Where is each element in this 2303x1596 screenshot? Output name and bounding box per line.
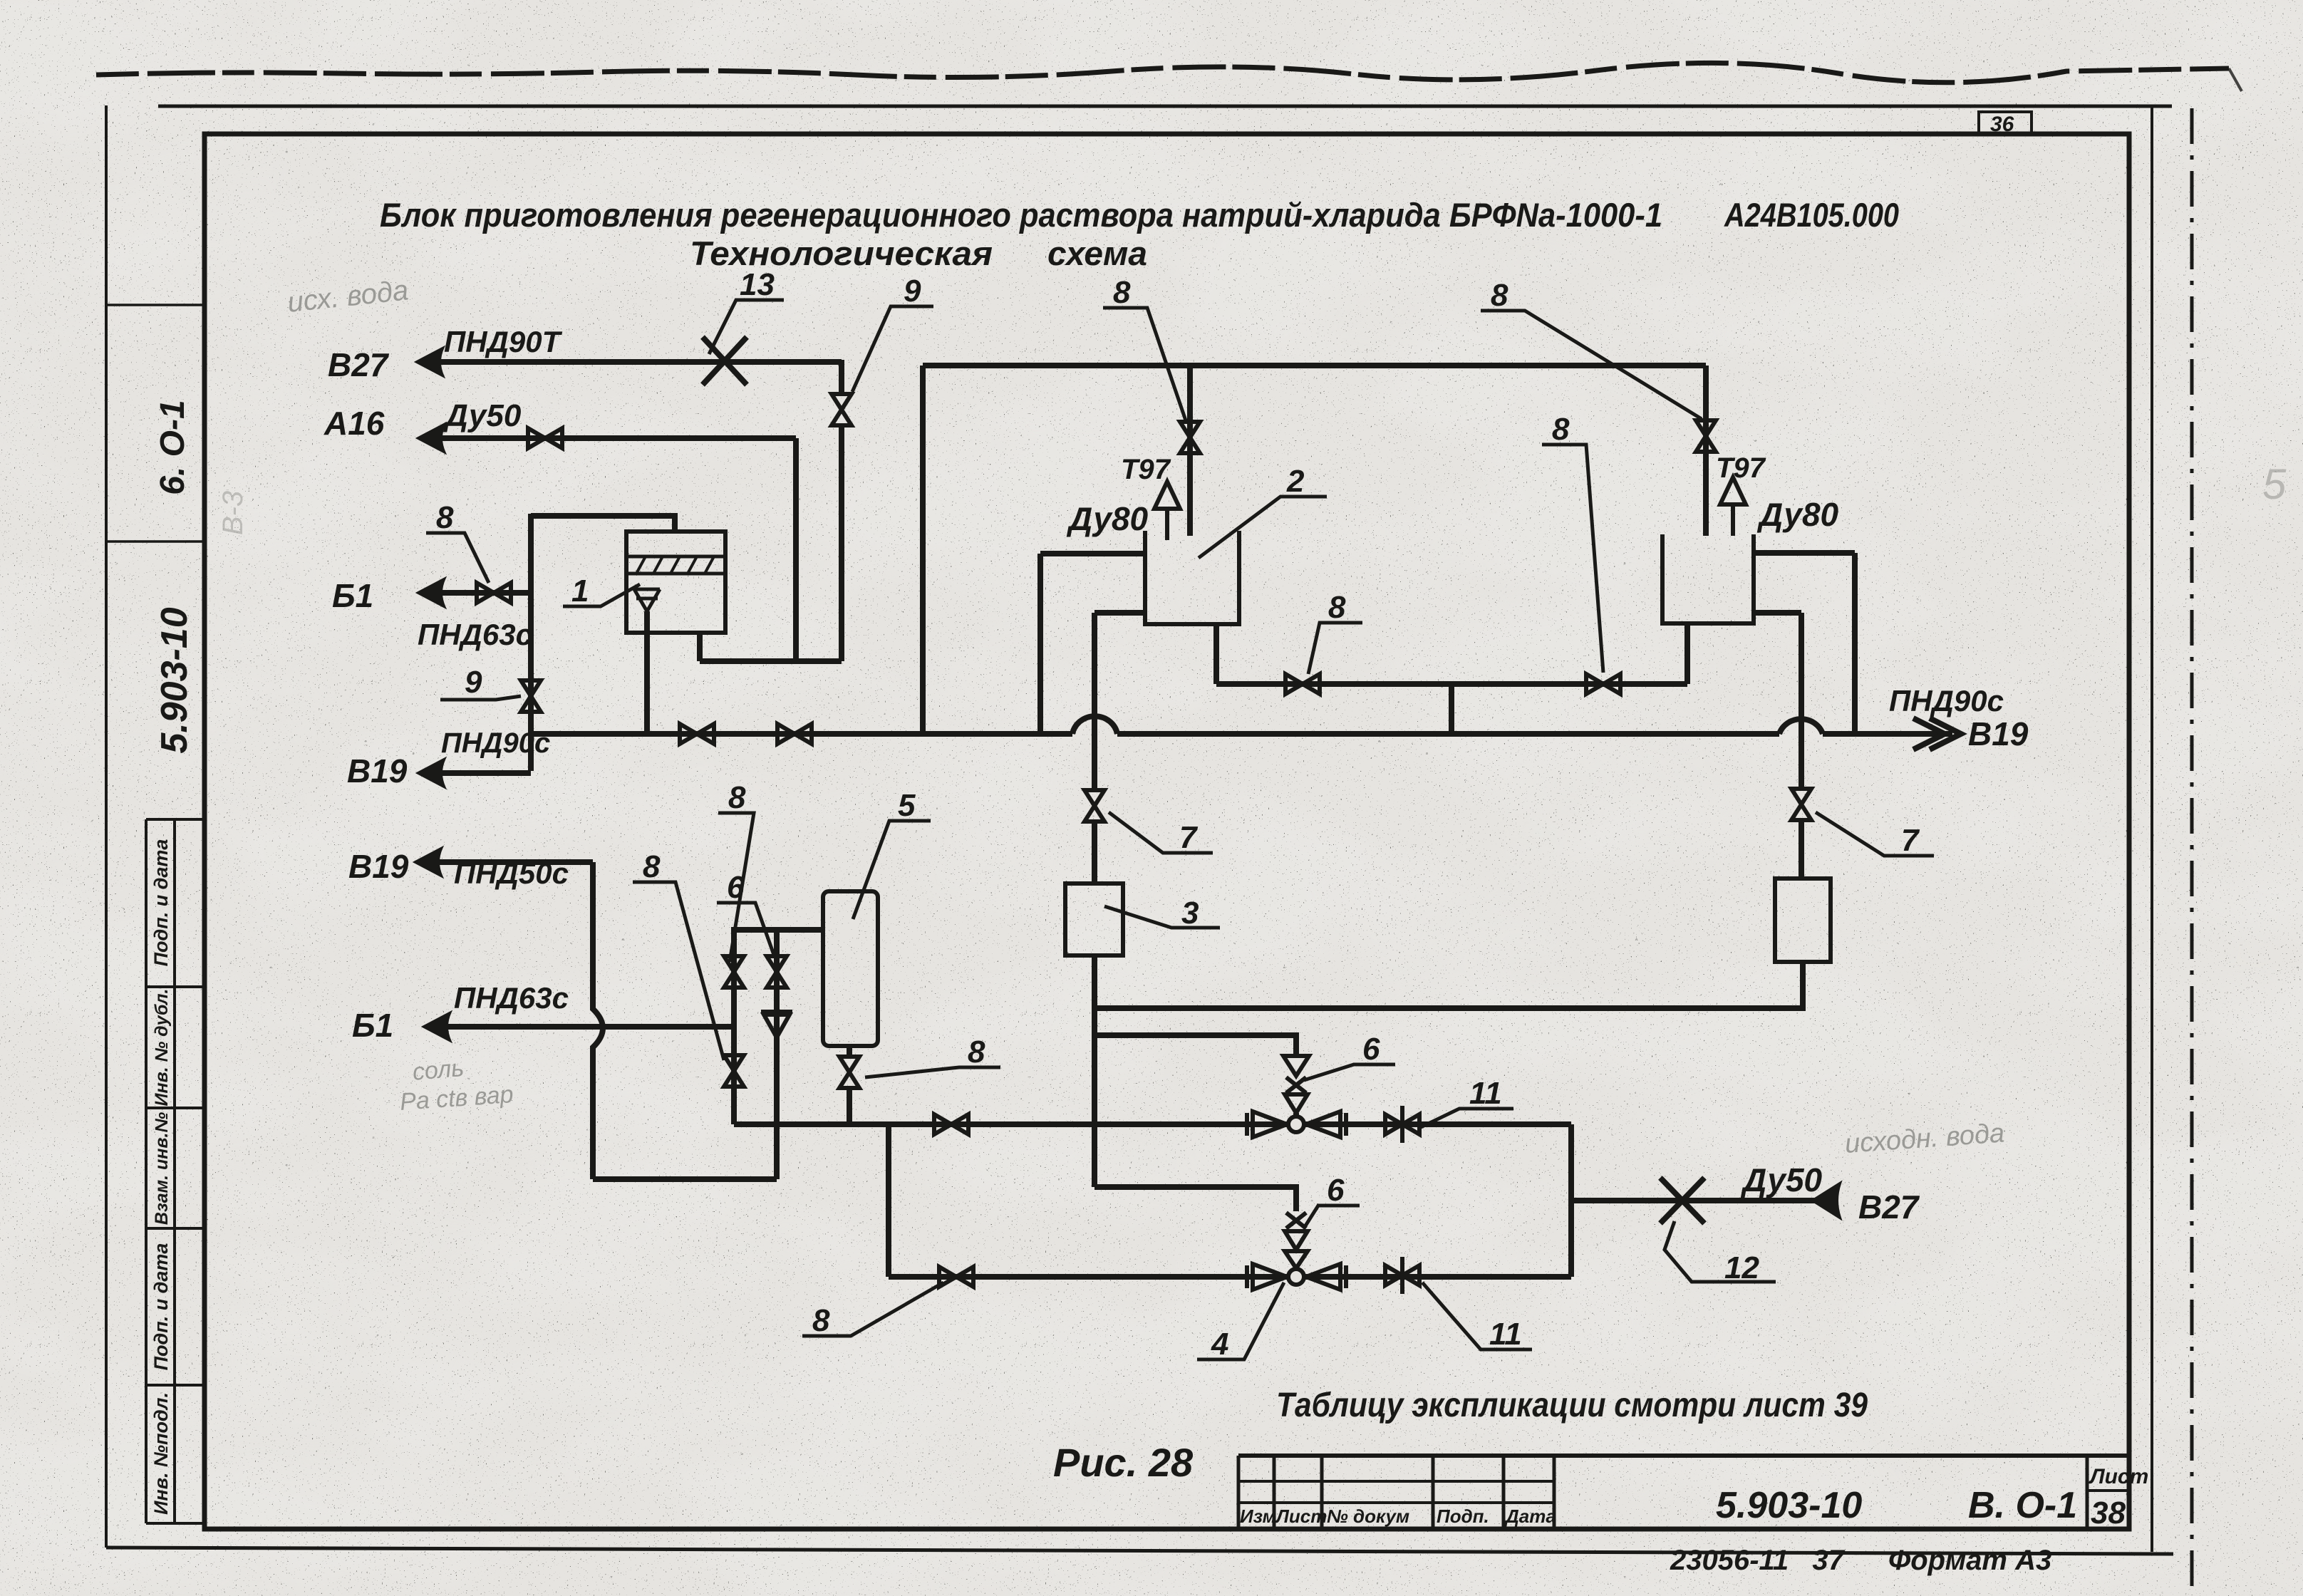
svg-text:8: 8 xyxy=(968,1035,985,1069)
svg-text:11: 11 xyxy=(1489,1317,1522,1352)
valve 8 (box5 outlet) xyxy=(839,1057,859,1088)
valve 8 on line M (x1335) xyxy=(934,1114,968,1134)
svg-text:ПНД63с: ПНД63с xyxy=(418,618,532,651)
svg-text:Ду80: Ду80 xyxy=(1756,496,1839,533)
pipe tank2 bottom drain stub xyxy=(1213,624,1219,684)
wire funnel drain xyxy=(644,611,650,734)
pipe shared drain line y960 xyxy=(1216,681,1687,687)
pipe outlet to B27 y1685 xyxy=(1571,1198,1816,1203)
box 3 (ejector left) xyxy=(1065,883,1123,955)
svg-text:3: 3 xyxy=(1181,896,1199,931)
svg-text:8: 8 xyxy=(812,1303,830,1338)
svg-text:Подп. и дата: Подп. и дата xyxy=(150,839,172,967)
wire right tank drain stub xyxy=(1684,624,1690,684)
valve 7 (left) xyxy=(1085,790,1104,822)
wire valve7 to box3 xyxy=(1092,821,1097,883)
svg-text:6: 6 xyxy=(727,870,745,905)
margin table verticals xyxy=(146,819,175,1523)
svg-text:Технологическая: Технологическая xyxy=(690,234,993,272)
svg-text:соль: соль xyxy=(411,1054,465,1086)
callout 1 xyxy=(563,584,640,606)
callout 5 xyxy=(853,821,931,919)
flow arrow B27 xyxy=(416,348,443,376)
wire B27 drop corner xyxy=(839,360,844,393)
sheet number box 36 xyxy=(1979,112,2032,134)
svg-text:9: 9 xyxy=(465,665,482,700)
svg-text:Таблицу экспликации смотри: Таблицу экспликации смотри лист 39 xyxy=(1276,1387,1868,1424)
SCHEMA2 tanks / right xyxy=(923,275,1934,1187)
right tank (dissolving tank 2) open-top xyxy=(1662,534,1754,623)
three-way cock upper (node on line M) xyxy=(1247,1111,1346,1137)
flow arrow B19 ПНД50с xyxy=(415,848,442,876)
pipe U-bottom y1655 xyxy=(593,1176,777,1182)
svg-text:ПНД90Т: ПНД90Т xyxy=(444,325,563,358)
wire drop x1247 M to E xyxy=(886,1124,891,1277)
svg-text:6. О-1: 6. О-1 xyxy=(154,400,192,494)
svg-text:Подп. и дата: Подп. и дата xyxy=(150,1243,172,1371)
valve on L1 (x978) xyxy=(680,724,714,744)
valve 11 lower xyxy=(1385,1265,1419,1285)
callout 8 (x1030 upper valve) xyxy=(718,813,754,962)
wire tank1 bottom stub xyxy=(697,633,703,661)
svg-text:36: 36 xyxy=(1990,113,2014,136)
tank 1 funnel nozzle xyxy=(634,589,660,611)
valve 8 (tank2 drain) xyxy=(1285,674,1320,694)
svg-text:7: 7 xyxy=(1179,820,1199,855)
inner drawing frame xyxy=(205,134,2129,1529)
svg-text:Т97: Т97 xyxy=(1121,454,1171,485)
svg-text:Инв. № дубл.: Инв. № дубл. xyxy=(152,989,172,1107)
LEFTMARGIN xyxy=(106,305,249,1523)
title block left stack verticals xyxy=(1238,1456,1554,1529)
svg-text:Ду50: Ду50 xyxy=(1740,1161,1823,1198)
valve on A16 line xyxy=(528,428,562,448)
wire valve7R to right box xyxy=(1799,819,1804,879)
callout 7 left xyxy=(1109,812,1213,853)
svg-text:Подп.: Подп. xyxy=(1437,1506,1489,1527)
page edge dash-dot vertical right xyxy=(2190,108,2194,1587)
svg-text:8: 8 xyxy=(643,849,661,884)
callout 6 lower xyxy=(1305,1206,1360,1227)
svg-text:5.903-10: 5.903-10 xyxy=(1716,1485,1862,1526)
svg-text:Рис. 28: Рис. 28 xyxy=(1053,1440,1194,1485)
svg-text:8: 8 xyxy=(1328,590,1346,625)
wire drop x2528 through L1 xyxy=(1799,613,1804,789)
svg-text:8: 8 xyxy=(1552,412,1570,447)
pipe jump over riser x2528 xyxy=(1779,719,1823,734)
box 5 (filter) xyxy=(823,891,878,1046)
wire A16 drop xyxy=(793,438,799,661)
margin cell divider top2 xyxy=(106,540,205,543)
pipe tank2 drain to filter y860 xyxy=(1094,610,1143,616)
svg-text:11: 11 xyxy=(1469,1076,1502,1111)
callout 13 xyxy=(709,300,784,354)
tank 1 screen hatching xyxy=(636,556,714,574)
pipe main line L1 y1030 xyxy=(531,731,1952,737)
valve 8 (x1030 upper) xyxy=(724,956,744,988)
callout 9 upper xyxy=(852,306,933,392)
svg-text:Ду50: Ду50 xyxy=(443,398,522,433)
pipe collector y928 under tank 1 xyxy=(700,658,842,664)
svg-text:А16: А16 xyxy=(324,405,385,442)
title block top edge xyxy=(1238,1453,2129,1458)
wire branch x1030 xyxy=(731,930,737,1124)
box 3 (ejector right) xyxy=(1775,879,1831,962)
pipe line E y1792 xyxy=(889,1274,1571,1280)
vent arrow T97 (tank2) xyxy=(1154,482,1180,540)
valve 13 (X crossing) xyxy=(703,337,747,385)
callout 8 (Б1 valve) xyxy=(426,533,489,583)
pipe line B y1453 xyxy=(1094,1035,1296,1055)
title block left stack rows xyxy=(1238,1481,1554,1503)
wire drop x832 (jump over Б1 line) xyxy=(593,862,603,1179)
tank 1 (salt dissolver) body xyxy=(626,532,725,633)
svg-text:9: 9 xyxy=(904,274,921,309)
callout 12 xyxy=(1665,1221,1776,1282)
svg-text:В27: В27 xyxy=(328,346,390,383)
callout 11 lower xyxy=(1422,1282,1532,1349)
svg-text:№ докум: № докум xyxy=(1327,1506,1409,1527)
flow arrow B19 right (double chevron) xyxy=(1913,718,1961,750)
svg-text:6: 6 xyxy=(1327,1173,1345,1208)
svg-text:ПНД63с: ПНД63с xyxy=(454,981,569,1015)
callout 11 upper xyxy=(1421,1109,1513,1127)
valve 11 upper xyxy=(1385,1114,1419,1134)
outer border left xyxy=(105,105,108,1548)
flow arrow Б1 xyxy=(418,579,445,607)
tank 2 (dissolving tank) open-top xyxy=(1145,531,1239,624)
svg-text:13: 13 xyxy=(740,267,775,302)
valve 6 lower assembly (x1819) xyxy=(1285,1213,1308,1268)
valve 8 on Б1 line xyxy=(477,583,511,603)
pipe top distribution line y513 xyxy=(923,363,1706,368)
pipe line D y1666 xyxy=(1094,1187,1296,1211)
callout 2 xyxy=(1199,497,1327,558)
valve 9 (lower, on riser x745) xyxy=(521,680,541,712)
callout 9 lower xyxy=(440,696,521,700)
wire right box down to line A xyxy=(1800,962,1806,1007)
flow arrow Б1 out xyxy=(423,1012,450,1041)
valve 9 (upper, on B27 drop) xyxy=(832,394,852,425)
torn page top edge (wavy dashed line) xyxy=(96,63,2229,82)
svg-text:В19: В19 xyxy=(347,752,408,789)
TITLETEXT xyxy=(286,196,2287,1159)
valve 8 (right tank fill) xyxy=(1696,420,1716,452)
wire branch x1090 xyxy=(774,930,780,1124)
callout 6 upper xyxy=(1304,1064,1395,1080)
valve 6 upper assembly (x1819) xyxy=(1283,1056,1309,1113)
svg-text:5: 5 xyxy=(2262,460,2287,508)
margin table horizontals xyxy=(146,819,205,1523)
pipe ПНД50с y1210 xyxy=(438,859,593,865)
pipe line M y1578 xyxy=(734,1121,1571,1127)
valve 8 (x1030 lower) xyxy=(724,1055,744,1087)
valve 6 (x1090) xyxy=(767,956,787,988)
svg-text:В. О-1: В. О-1 xyxy=(1968,1485,2077,1526)
svg-text:12: 12 xyxy=(1724,1250,1759,1285)
svg-text:ПНД90с: ПНД90с xyxy=(1889,684,2004,717)
svg-text:Блок приготовления регенерацио: Блок приготовления регенерационного раст… xyxy=(380,196,1662,234)
valve 12 (X crossing) xyxy=(1660,1178,1704,1223)
svg-text:Формат А3: Формат А3 xyxy=(1888,1545,2051,1576)
wire drain tee x2037 to L1 xyxy=(1449,684,1454,734)
pipe right tank outlet loop y776 xyxy=(1754,550,1855,556)
callout 8 (box5 outlet valve) xyxy=(865,1067,1000,1077)
callout 8 (tank2 drain valve) xyxy=(1308,623,1362,674)
svg-text:Лист: Лист xyxy=(2089,1465,2148,1488)
valve 7 (right) xyxy=(1791,789,1811,820)
svg-text:8: 8 xyxy=(728,780,746,815)
svg-text:А24В105.000: А24В105.000 xyxy=(1724,196,1899,234)
flow arrow A16 xyxy=(418,424,445,452)
svg-text:Б1: Б1 xyxy=(352,1007,393,1044)
pipe jump over riser x1536 xyxy=(1072,716,1117,734)
svg-text:В27: В27 xyxy=(1858,1188,1920,1225)
wire B27 drop to collector xyxy=(839,426,844,661)
outer border bottom xyxy=(106,1548,2173,1554)
svg-text:Инв. №подл.: Инв. №подл. xyxy=(150,1392,172,1515)
callout 3 xyxy=(1104,906,1220,928)
valve 8 on line E (x1342) xyxy=(939,1267,973,1287)
svg-text:Б1: Б1 xyxy=(332,577,373,614)
svg-text:8: 8 xyxy=(1491,278,1508,313)
valve 8 (tank2 fill) xyxy=(1180,422,1200,453)
pipe header y1305 xyxy=(731,927,824,933)
pipe Б1 y832 xyxy=(440,590,531,596)
valve on L1 (x1115) xyxy=(777,724,812,744)
pipe B19 outlet stub y1085 xyxy=(440,770,531,776)
svg-text:Т97: Т97 xyxy=(1716,452,1766,484)
callout 8 (tank2 fill valve) xyxy=(1103,308,1186,423)
outer border top xyxy=(158,105,2172,108)
tank 1 screen lines xyxy=(626,556,725,574)
svg-text:Лист: Лист xyxy=(1275,1506,1327,1527)
vent arrow T97 (right tank) xyxy=(1720,477,1746,536)
callout 7 right xyxy=(1816,812,1934,856)
wire riser x2603 to L1 xyxy=(1852,553,1858,734)
svg-text:5: 5 xyxy=(898,788,916,823)
svg-text:1: 1 xyxy=(571,574,589,608)
callout 6 (x1090 valve) xyxy=(717,903,774,955)
wire drop to right tank fill xyxy=(1703,366,1709,536)
svg-text:8: 8 xyxy=(1113,275,1131,310)
flow arrow B19 out xyxy=(418,759,445,787)
pipe right tank drain y860 xyxy=(1754,610,1801,616)
callout 8 (right tank fill valve) xyxy=(1481,311,1702,419)
svg-text:38: 38 xyxy=(2091,1496,2126,1530)
check valve on x1090 xyxy=(761,1012,792,1037)
svg-text:схема: схема xyxy=(1047,234,1147,272)
wire box5 outlet to line M xyxy=(847,1087,852,1124)
callout 8 (right tank drain valve) xyxy=(1542,445,1603,673)
pipe tank2 inlet loop y777 xyxy=(1040,551,1143,556)
wire drop to tank 2 fill xyxy=(1187,366,1193,536)
wire box3 down x1536 xyxy=(1092,955,1097,1187)
svg-text:Взам. инв.№: Взам. инв.№ xyxy=(152,1112,172,1225)
wire riser x1090 lower xyxy=(774,1124,780,1179)
wire drop x1536 through L1 xyxy=(1092,613,1097,791)
valve 8 (right tank drain) xyxy=(1586,674,1620,694)
outer border right xyxy=(2151,106,2153,1552)
svg-text:В19: В19 xyxy=(1968,715,2029,752)
svg-text:6: 6 xyxy=(1362,1032,1380,1067)
wire to mixing node xyxy=(1293,1113,1299,1117)
wire left riser x745 xyxy=(528,514,534,771)
callout 4 xyxy=(1197,1282,1284,1359)
SCHEMA1 top-left xyxy=(324,267,2029,789)
svg-text:Ду80: Ду80 xyxy=(1066,500,1149,537)
svg-text:4: 4 xyxy=(1211,1327,1228,1362)
wire riser x1295 (top branch to L1) xyxy=(920,366,926,734)
wire right loop x2205 xyxy=(1568,1124,1574,1277)
pipe Б1 outlet y1441 xyxy=(446,1024,734,1030)
callout 8 (line E valve) xyxy=(802,1282,943,1336)
three-way cock lower (node 4 on line E) xyxy=(1247,1264,1346,1290)
pipe line A y1414 xyxy=(1094,1005,1803,1008)
outlet flare B27 right xyxy=(1813,1183,1840,1218)
svg-text:Дата: Дата xyxy=(1504,1506,1556,1527)
SCHEMA3 bottom xyxy=(348,780,1920,1485)
pipe A16 y615 xyxy=(440,435,796,441)
svg-text:Изм: Изм xyxy=(1240,1506,1276,1527)
svg-text:23056-11 37: 23056-11 37 xyxy=(1670,1545,1846,1576)
wire riser x1460 to L1 xyxy=(1037,554,1043,734)
Лист box divider xyxy=(2086,1456,2089,1529)
wire box5 outlet xyxy=(847,1046,852,1057)
svg-text:7: 7 xyxy=(1901,823,1920,858)
svg-text:В19: В19 xyxy=(348,848,409,885)
pipe B27 main y508 xyxy=(439,359,842,365)
svg-text:5.903-10: 5.903-10 xyxy=(154,607,195,753)
TITLEBLOCK xyxy=(1238,1456,2148,1576)
margin cell divider top1 xyxy=(106,304,205,306)
pipe tank1 feed top xyxy=(531,516,675,533)
svg-text:8: 8 xyxy=(436,500,454,535)
svg-text:2: 2 xyxy=(1286,464,1305,499)
callout 8 (x1030 lower valve) xyxy=(633,882,724,1060)
svg-text:В-3: В-3 xyxy=(217,491,249,535)
